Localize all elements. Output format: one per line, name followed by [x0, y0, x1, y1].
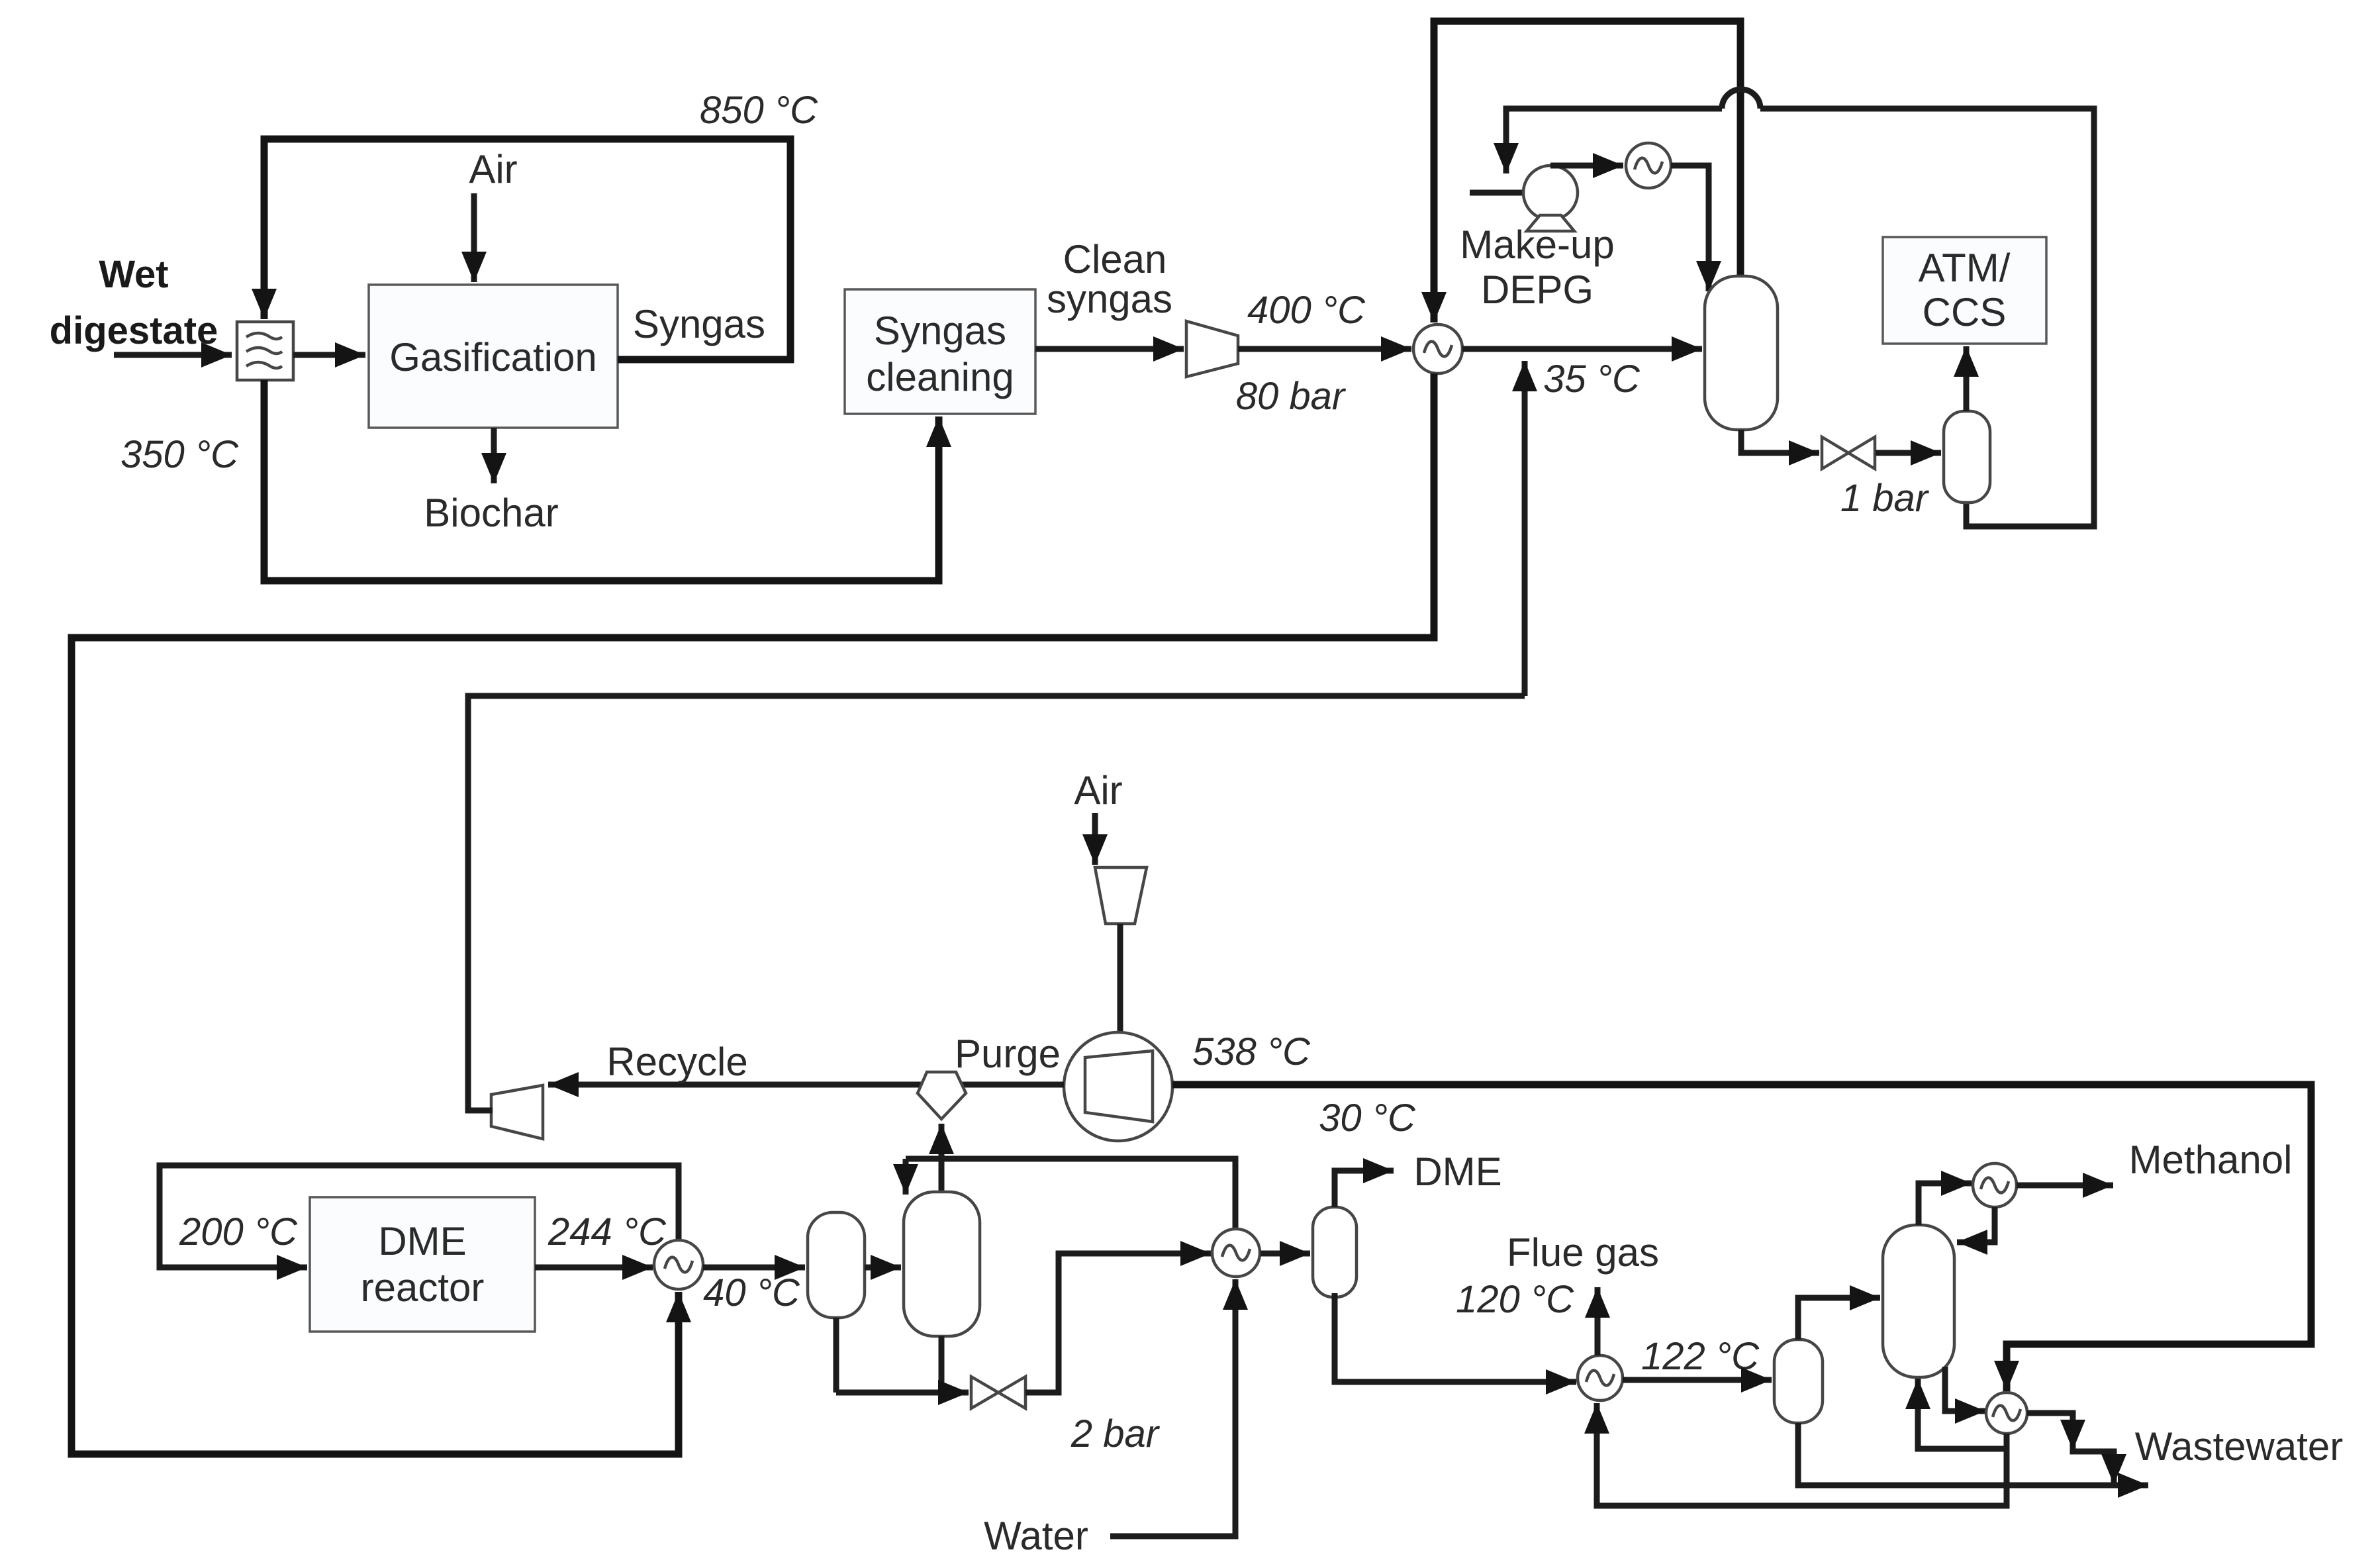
wire air compressor to turbine: [1118, 924, 1123, 1032]
wire reboiler return to C2: [1918, 1379, 2007, 1449]
svg-text:ATM/: ATM/: [1919, 246, 2011, 290]
svg-text:850 °C: 850 °C: [700, 89, 818, 132]
ATM/CCS box: [1883, 237, 2046, 344]
pump P1: [1523, 166, 1578, 220]
wire HX4 to DME drum: [1261, 1251, 1310, 1257]
gasifier box: [369, 285, 618, 428]
wire valve to flash drum: [1876, 450, 1941, 456]
wire compressor to cooler: [1238, 346, 1411, 352]
air compressor: [1095, 867, 1147, 924]
wire hot syngas recycle loop 850C: [264, 139, 790, 360]
svg-text:reactor: reactor: [361, 1265, 485, 1310]
wire air to air compressor: [1092, 813, 1098, 865]
svg-text:Purge: Purge: [955, 1032, 1061, 1076]
wire dryer bottom to syngas cleaning: [264, 380, 939, 581]
wire D1 bottoms: [833, 1318, 839, 1393]
wire reactor effluent to HX3: [535, 1265, 653, 1271]
wire sweet gas loop from absorber top to HX1: [1434, 21, 1740, 322]
wire feed preheat loop: [160, 1165, 679, 1267]
arrowhead staircase 2: [2101, 1454, 2126, 1485]
wire DEPG regeneration return: [1506, 109, 2094, 526]
wire water to HX4: [1110, 1279, 1235, 1536]
svg-text:Methanol: Methanol: [2129, 1138, 2293, 1182]
svg-text:538 °C: 538 °C: [1192, 1030, 1311, 1073]
wire HX5 to stripper S2: [1623, 1377, 1772, 1383]
svg-text:cleaning: cleaning: [866, 355, 1014, 399]
wire absorber bottoms to valve: [1741, 430, 1819, 453]
wire recycle 35C riser: [1522, 361, 1528, 696]
wash column W1: [904, 1192, 980, 1336]
flash drum F1: [1944, 411, 1990, 503]
svg-text:DME: DME: [378, 1219, 466, 1263]
heat exchanger HX6 condenser: [1973, 1163, 2017, 1207]
wire lean DEPG to absorber top: [1671, 166, 1709, 291]
svg-text:350 °C: 350 °C: [120, 433, 239, 476]
svg-text:35 °C: 35 °C: [1543, 358, 1641, 401]
wire jump bump at crossing: [1722, 89, 1760, 109]
syngas cleaning box: [845, 289, 1035, 414]
valve V1: [1822, 437, 1848, 469]
wire purge feed up: [939, 1124, 945, 1159]
wire HX3 to flash drum D1: [703, 1265, 805, 1271]
compressor C1: [1186, 321, 1238, 377]
heat exchanger HX5 122C: [1578, 1355, 1623, 1400]
wire D2 bottoms to HX5: [1335, 1293, 1576, 1382]
heat exchanger HX1 syngas cooler: [1413, 324, 1462, 373]
wire biochar out: [491, 428, 497, 483]
svg-text:Recycle: Recycle: [606, 1040, 747, 1084]
svg-text:400 °C: 400 °C: [1247, 289, 1366, 332]
wire hot water loop to HX5: [1597, 1403, 2007, 1506]
valve V2: [971, 1377, 998, 1408]
DME drum D2: [1313, 1207, 1357, 1297]
wire 538C hot gas: [1172, 1085, 2311, 1391]
heat exchanger HX4 30C cooler: [1212, 1229, 1260, 1277]
svg-text:Wastewater: Wastewater: [2135, 1424, 2344, 1469]
svg-text:244 °C: 244 °C: [547, 1210, 667, 1253]
heat exchanger HX7 reboiler: [1986, 1393, 2027, 1434]
svg-text:Air: Air: [469, 147, 517, 191]
purge splitter: [918, 1072, 966, 1119]
svg-text:Biochar: Biochar: [424, 491, 558, 535]
heat exchanger HX3 feed-effluent: [654, 1240, 703, 1289]
svg-text:Syngas: Syngas: [874, 309, 1006, 353]
wire flue gas out: [1595, 1287, 1601, 1355]
wire wash column overhead header: [906, 1159, 1235, 1230]
wire CO2 to ATM/CCS: [1964, 346, 1970, 411]
svg-text:Make-up: Make-up: [1460, 222, 1614, 267]
wire reboiler outlet staircase: [2027, 1413, 2114, 1485]
wire C2 overhead to condenser: [1919, 1183, 1972, 1225]
svg-text:2 bar: 2 bar: [1071, 1412, 1161, 1455]
svg-text:Water: Water: [984, 1514, 1088, 1558]
wire wash column top riser: [939, 1159, 945, 1192]
wire cooled gas down-left to DME section: [71, 373, 1434, 1454]
flash drum D1: [808, 1212, 865, 1318]
heat exchanger HX2 lean DEPG cooler: [1626, 143, 1671, 188]
svg-text:120 °C: 120 °C: [1456, 1278, 1574, 1321]
svg-text:80 bar: 80 bar: [1236, 375, 1347, 418]
wire valve to HX4: [1025, 1253, 1211, 1393]
svg-text:30 °C: 30 °C: [1319, 1097, 1416, 1140]
wire into wash column top: [903, 1159, 909, 1195]
svg-text:1 bar: 1 bar: [1840, 477, 1930, 520]
wire cooler to absorber: [1462, 346, 1702, 352]
wire C2 bottoms to reboiler HX7: [1945, 1367, 1985, 1411]
svg-text:122 °C: 122 °C: [1641, 1335, 1760, 1378]
turbine: [1064, 1032, 1172, 1141]
wire S2 overhead to column C2: [1798, 1298, 1880, 1340]
recycle compressor: [491, 1085, 543, 1139]
distillation column C2: [1883, 1225, 1954, 1377]
wire D1 vapor to wash column: [865, 1265, 901, 1271]
svg-text:Air: Air: [1074, 768, 1122, 812]
svg-text:Clean: Clean: [1063, 237, 1167, 281]
wire reflux to C2: [1957, 1207, 1995, 1242]
svg-text:Gasification: Gasification: [389, 335, 596, 379]
wire pump to lean cooler: [1550, 163, 1623, 169]
wire air to gasifier: [471, 193, 477, 282]
svg-text:syngas: syngas: [1047, 277, 1172, 321]
wire make-up DEPG inlet to pump: [1470, 190, 1556, 196]
svg-text:digestate: digestate: [50, 309, 218, 352]
svg-text:Wet: Wet: [99, 253, 168, 296]
wire recycle compressor to 35C riser: [468, 696, 1525, 1110]
wire DME product: [1335, 1171, 1394, 1207]
wire W1 bottoms: [836, 1390, 969, 1396]
svg-text:CCS: CCS: [1923, 290, 2007, 334]
wire wet digestate feed: [114, 352, 232, 358]
wire methanol product: [2017, 1183, 2113, 1189]
DME reactor box: [310, 1197, 535, 1332]
wire cleaning to compressor: [1035, 346, 1184, 352]
wire recycle line: [548, 1082, 1064, 1088]
svg-text:200 °C: 200 °C: [179, 1210, 298, 1253]
svg-text:Flue gas: Flue gas: [1507, 1230, 1659, 1275]
wire wastewater line: [1798, 1423, 2148, 1485]
svg-text:Syngas: Syngas: [633, 302, 765, 346]
svg-text:DEPG: DEPG: [1481, 268, 1594, 312]
stripper column S2: [1774, 1340, 1823, 1423]
svg-text:40 °C: 40 °C: [703, 1271, 800, 1314]
arrowhead staircase 1: [2060, 1420, 2085, 1450]
wire dryer to gasifier: [293, 352, 365, 358]
absorber column: [1705, 276, 1778, 430]
svg-text:DME: DME: [1413, 1150, 1501, 1194]
dryer unit: [237, 322, 293, 380]
